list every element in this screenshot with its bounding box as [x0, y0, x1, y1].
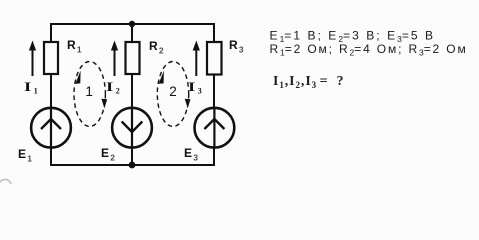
node junction dot top	[129, 21, 135, 27]
source E2	[101, 108, 152, 163]
mesh loop 2 dashed ellipse	[157, 62, 190, 127]
svg-text:1: 1	[85, 84, 93, 99]
wire top horizontal node	[51, 23, 214, 25]
svg-text:2: 2	[169, 84, 177, 99]
current arrow I3	[188, 41, 202, 96]
resistor R2	[126, 39, 164, 74]
resistor R3	[207, 38, 244, 75]
source E3	[184, 108, 234, 163]
current arrow I2	[106, 41, 120, 96]
wire branch 2 vertical	[131, 24, 133, 165]
wire bottom horizontal node	[51, 164, 214, 166]
wire branch 1 vertical	[50, 23, 52, 166]
node junction dot bottom	[129, 162, 136, 169]
mesh loop 1 dashed ellipse	[74, 62, 107, 127]
wire branch 3 vertical	[213, 23, 215, 166]
current arrow I1	[24, 41, 38, 96]
svg-text:R1=2 Ом; R2=4 Ом; R3=2 Ом: R1=2 Ом; R2=4 Ом; R3=2 Ом	[270, 42, 468, 58]
resistor R1	[44, 38, 82, 74]
source E1	[18, 108, 71, 164]
